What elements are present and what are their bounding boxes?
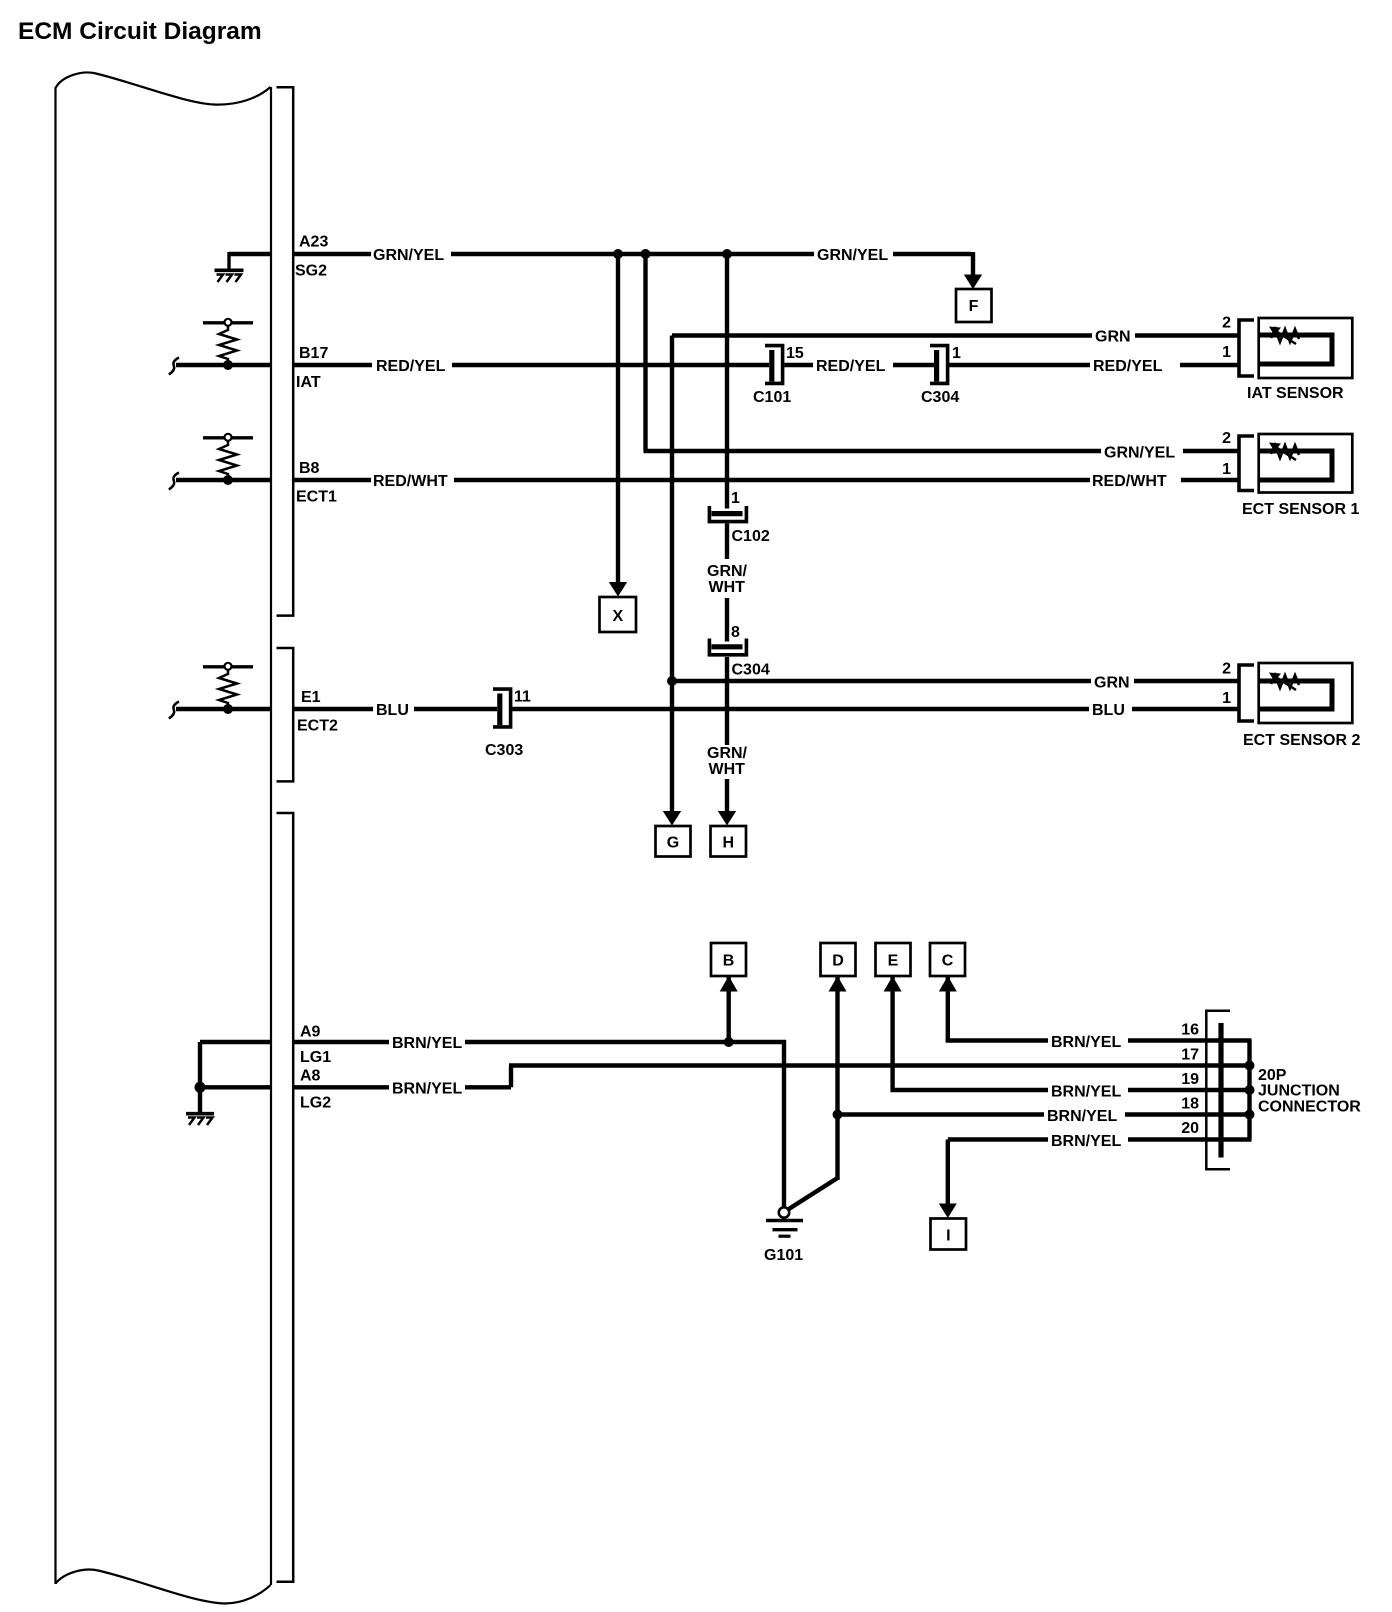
svg-text:RED/WHT: RED/WHT xyxy=(1092,473,1167,490)
wire B17 internal lead hook xyxy=(169,358,179,375)
connector C304 male bracket (H line) xyxy=(709,639,746,655)
svg-text:GRN: GRN xyxy=(1094,675,1130,692)
svg-text:C304: C304 xyxy=(921,389,959,406)
wire E1 to C303 xyxy=(414,707,497,711)
wire BLU main run xyxy=(511,707,1090,711)
svg-text:LG2: LG2 xyxy=(300,1095,331,1112)
svg-text:GRN: GRN xyxy=(1095,329,1131,346)
svg-text:B8: B8 xyxy=(299,460,320,477)
IAT sensor element loop xyxy=(1259,335,1332,364)
svg-text:20PJUNCTIONCONNECTOR: 20PJUNCTIONCONNECTOR xyxy=(1258,1067,1361,1116)
ground LG hatch strokes xyxy=(188,1118,213,1126)
svg-text:17: 17 xyxy=(1181,1047,1199,1064)
svg-text:RED/WHT: RED/WHT xyxy=(373,473,448,490)
svg-text:18: 18 xyxy=(1181,1096,1199,1113)
connector box X xyxy=(600,597,637,632)
wire connector stub 20 xyxy=(1224,1137,1252,1141)
ECM body left edge xyxy=(54,87,56,1584)
connector C303 female bar xyxy=(497,694,502,726)
node junction A23/X xyxy=(613,249,623,259)
wire H branch between C102 and label xyxy=(725,524,729,560)
svg-text:BRN/YEL: BRN/YEL xyxy=(1051,1133,1121,1150)
wire ECT1 GRN/YEL sensor stub xyxy=(1183,449,1238,453)
arrowhead into G xyxy=(663,811,681,826)
wire C branch vertical xyxy=(946,977,950,1043)
connector C101 male bracket xyxy=(765,346,783,384)
connector box I xyxy=(931,1219,967,1250)
node junction A9/B xyxy=(724,1037,734,1047)
svg-text:2: 2 xyxy=(1222,661,1231,678)
wire G branch lower xyxy=(670,681,674,811)
svg-text:GRN/WHT: GRN/WHT xyxy=(707,563,748,596)
svg-text:A23: A23 xyxy=(299,234,328,251)
wire A9 internal lead xyxy=(200,1040,271,1044)
svg-text:C102: C102 xyxy=(732,528,770,545)
wire connector stub 19 xyxy=(1224,1088,1252,1092)
ground G101 bar 1 xyxy=(766,1219,803,1223)
svg-text:GRN/WHT: GRN/WHT xyxy=(707,745,748,778)
svg-text:D: D xyxy=(832,953,844,970)
wire row 18 xyxy=(838,1112,1045,1116)
wire I branch vertical xyxy=(946,1140,950,1204)
wire B8 internal lead xyxy=(176,478,271,482)
wire RED/YEL between C101 and label xyxy=(785,363,814,367)
arrowhead into I xyxy=(939,1204,957,1219)
node junction A23/ECT1 branch xyxy=(641,249,651,259)
ECM body right edge xyxy=(270,87,272,1585)
wire E branch vertical xyxy=(890,977,894,1093)
wire D diagonal to G101 xyxy=(788,1178,838,1210)
svg-text:RED/YEL: RED/YEL xyxy=(1093,358,1163,375)
ground SG2 bar xyxy=(215,268,244,272)
svg-text:16: 16 xyxy=(1181,1022,1199,1039)
wire A23 pin stub xyxy=(293,252,371,256)
node junction A23/H branch xyxy=(722,249,732,259)
svg-text:X: X xyxy=(612,608,623,625)
thermistor symbol IAT xyxy=(1269,327,1299,345)
thermistor symbol ECT1 xyxy=(1269,443,1299,461)
resistor R-ECT1 zigzag xyxy=(219,440,237,480)
wire A23 GRN/YEL main run xyxy=(451,252,814,256)
svg-text:IAT SENSOR: IAT SENSOR xyxy=(1247,385,1344,402)
wire SG2 internal ground lead xyxy=(229,252,271,256)
svg-text:C303: C303 xyxy=(485,742,523,759)
svg-text:RED/YEL: RED/YEL xyxy=(376,358,446,375)
svg-text:BRN/YEL: BRN/YEL xyxy=(1051,1034,1121,1051)
resistor R-ECT1 top bar xyxy=(203,436,253,439)
wire RED/YEL to IAT sensor xyxy=(948,363,1091,367)
wire connector stub 17 xyxy=(1224,1063,1252,1067)
wire B8 internal lead hook xyxy=(169,473,179,490)
connector box E xyxy=(876,943,911,976)
connector box F xyxy=(956,289,992,322)
wire SG2 ground drop xyxy=(227,252,230,269)
svg-text:1: 1 xyxy=(1222,344,1231,361)
svg-text:1: 1 xyxy=(952,345,961,362)
connector bracket ECT sensor 1 xyxy=(1239,436,1254,491)
svg-text:IAT: IAT xyxy=(296,374,321,391)
wire A9 BRN/YEL run xyxy=(465,1040,786,1044)
svg-text:ECM Circuit Diagram: ECM Circuit Diagram xyxy=(18,18,262,45)
ECM connector bracket segment 1 xyxy=(277,87,294,615)
node junction R-ECT1/B8 xyxy=(223,475,233,485)
connector box H xyxy=(711,826,747,857)
ground G101 bar 2 xyxy=(773,1228,798,1231)
wire B branch vertical xyxy=(727,977,731,1043)
ECM connector bracket segment 2 xyxy=(277,648,294,781)
resistor R-ECT2 terminal circle xyxy=(225,663,232,670)
svg-text:ECT2: ECT2 xyxy=(297,718,338,735)
arrowhead into D xyxy=(829,976,847,992)
wire GRN row from G corner to IAT pin 2 xyxy=(672,333,1092,337)
ECT sensor 1 element loop xyxy=(1259,451,1332,480)
svg-text:B: B xyxy=(723,953,735,970)
wire row 18 to connector xyxy=(1125,1112,1219,1116)
svg-text:1: 1 xyxy=(1222,690,1231,707)
wire H branch through ECT2 rows xyxy=(725,657,729,745)
wire connector stub 16 xyxy=(1224,1038,1252,1042)
wire BLU sensor stub xyxy=(1132,707,1238,711)
wire B17 pin stub xyxy=(293,363,372,367)
ECM connector bracket segment 3 xyxy=(277,813,294,1582)
svg-text:GRN/YEL: GRN/YEL xyxy=(817,247,888,264)
svg-text:SG2: SG2 xyxy=(295,263,327,280)
connector bracket IAT sensor xyxy=(1239,320,1254,376)
wire GRN ECT2 sensor stub xyxy=(1134,679,1238,683)
connector C101 female bar xyxy=(769,350,774,382)
svg-text:G: G xyxy=(667,835,679,852)
wire H branch vertical upper xyxy=(725,254,729,509)
wire X branch vertical xyxy=(616,254,620,582)
connector box G xyxy=(656,826,691,857)
connector box C xyxy=(930,943,965,976)
svg-text:C: C xyxy=(942,953,954,970)
svg-text:2: 2 xyxy=(1222,315,1231,332)
wire internal ground drop LG xyxy=(198,1042,202,1112)
resistor R-ECT2 zigzag xyxy=(219,669,237,709)
svg-text:C101: C101 xyxy=(753,389,791,406)
wire RED/WHT sensor stub xyxy=(1181,478,1238,482)
svg-text:19: 19 xyxy=(1181,1071,1199,1088)
wire row 16 to connector xyxy=(1128,1038,1219,1042)
wire ECT1 GRN/YEL row xyxy=(644,449,1102,453)
wire RED/YEL to C304 xyxy=(893,363,934,367)
wire A8 pin stub xyxy=(293,1085,389,1089)
wire B17 internal lead xyxy=(176,363,271,367)
node junction bus/19 xyxy=(1245,1085,1255,1095)
svg-text:15: 15 xyxy=(786,345,804,362)
node junction bus/17 xyxy=(1245,1061,1255,1071)
wire connector bus xyxy=(1247,1041,1251,1140)
wire G branch vertical xyxy=(670,336,674,682)
node junction R-IAT/B17 xyxy=(223,360,233,370)
svg-text:1: 1 xyxy=(1222,461,1231,478)
connector C102 female bar xyxy=(712,511,743,516)
wire A9 pin stub xyxy=(293,1040,389,1044)
resistor R-IAT zigzag xyxy=(219,325,237,365)
ECT sensor 1 body xyxy=(1259,434,1353,493)
connector box D xyxy=(821,943,856,976)
wire H branch to arrow xyxy=(725,779,729,811)
svg-text:I: I xyxy=(946,1228,950,1245)
arrowhead into C xyxy=(939,976,957,992)
wire H branch between label and C304 xyxy=(725,598,729,642)
node junction D/row18 xyxy=(833,1110,843,1120)
wire A23 to F corner xyxy=(893,252,973,275)
connector C102 male bracket xyxy=(709,506,746,522)
arrowhead into B xyxy=(720,976,738,992)
ground G101 terminal circle xyxy=(779,1207,789,1217)
IAT sensor body xyxy=(1259,318,1353,378)
wire B17 RED/YEL run to C101 xyxy=(452,363,769,367)
connector C304 female bar (IAT line) xyxy=(934,350,939,382)
svg-text:GRN/YEL: GRN/YEL xyxy=(1104,445,1175,462)
node junction bus/18 xyxy=(1245,1110,1255,1120)
svg-text:A8: A8 xyxy=(300,1068,321,1085)
wire GRN sensor stub xyxy=(1135,333,1238,337)
ECM body top wavy edge xyxy=(56,73,271,105)
svg-text:RED/YEL: RED/YEL xyxy=(816,358,886,375)
svg-text:BRN/YEL: BRN/YEL xyxy=(392,1035,462,1052)
wire B8 pin stub xyxy=(293,478,371,482)
svg-text:BRN/YEL: BRN/YEL xyxy=(392,1081,462,1098)
connector C304 female bar (H line) xyxy=(712,644,743,649)
20P junction connector body bar xyxy=(1218,1023,1223,1158)
wire A8 BRN/YEL step xyxy=(465,1066,511,1088)
wire GRN row ECT2 xyxy=(672,679,1091,683)
arrowhead into X xyxy=(609,582,627,597)
connector C304 male bracket (IAT line) xyxy=(930,346,948,384)
wire row 16 xyxy=(946,1038,1048,1042)
ECM body bottom wavy edge xyxy=(56,1570,271,1604)
svg-text:E1: E1 xyxy=(301,689,321,706)
node junction R-ECT2/E1 xyxy=(223,704,233,714)
wire D branch vertical xyxy=(835,977,839,1181)
wire connector stub 18 xyxy=(1224,1112,1252,1116)
wire row 19 to connector xyxy=(1128,1088,1219,1092)
svg-text:GRN/YEL: GRN/YEL xyxy=(373,247,444,264)
wire E1 internal lead hook xyxy=(169,702,179,719)
wire A8 internal lead xyxy=(200,1085,271,1089)
resistor R-ECT1 terminal circle xyxy=(225,434,232,441)
wire row 20 xyxy=(948,1137,1048,1141)
wire RED/YEL sensor stub xyxy=(1180,363,1238,367)
node junction G/ECT2 xyxy=(667,676,677,686)
wire row 17 long run xyxy=(509,1063,1219,1067)
ground SG2 hatch strokes xyxy=(217,275,242,283)
wire row 19 xyxy=(891,1088,1048,1092)
svg-text:B17: B17 xyxy=(299,345,328,362)
wire row 20 to connector xyxy=(1128,1137,1219,1141)
ECT sensor 2 element loop xyxy=(1259,681,1332,709)
svg-text:ECT SENSOR 2: ECT SENSOR 2 xyxy=(1243,732,1360,749)
svg-text:BLU: BLU xyxy=(1092,702,1125,719)
svg-text:F: F xyxy=(969,298,979,315)
connector C303 male bracket xyxy=(493,689,511,727)
ground G101 bar 3 xyxy=(779,1235,791,1238)
svg-text:LG1: LG1 xyxy=(300,1049,331,1066)
svg-text:8: 8 xyxy=(731,624,740,641)
svg-text:BRN/YEL: BRN/YEL xyxy=(1051,1084,1121,1101)
svg-text:2: 2 xyxy=(1222,430,1231,447)
svg-text:ECT1: ECT1 xyxy=(296,489,337,506)
wire E1 pin stub xyxy=(293,707,373,711)
svg-text:C304: C304 xyxy=(732,662,770,679)
svg-text:A9: A9 xyxy=(300,1024,321,1041)
thermistor symbol ECT2 xyxy=(1269,673,1299,691)
arrowhead into H xyxy=(718,811,736,826)
svg-text:BRN/YEL: BRN/YEL xyxy=(1047,1108,1117,1125)
ground LG bar xyxy=(186,1112,214,1116)
arrowhead into E xyxy=(884,976,902,992)
ECT sensor 2 body xyxy=(1259,663,1353,723)
wire A9 drop to G101 xyxy=(782,1040,786,1208)
svg-text:G101: G101 xyxy=(764,1247,803,1264)
svg-text:E: E xyxy=(888,953,899,970)
svg-text:ECT SENSOR 1: ECT SENSOR 1 xyxy=(1242,501,1359,518)
resistor R-ECT2 top bar xyxy=(203,665,253,668)
svg-text:1: 1 xyxy=(731,490,740,507)
svg-text:11: 11 xyxy=(514,689,531,706)
connector bracket ECT sensor 2 xyxy=(1239,665,1254,721)
wire ECT1 branch vertical xyxy=(643,254,647,451)
node junction A8/ground xyxy=(195,1082,206,1093)
connector box B xyxy=(711,943,746,976)
svg-text:BLU: BLU xyxy=(376,702,409,719)
resistor R-IAT top bar xyxy=(203,321,253,324)
svg-text:H: H xyxy=(723,835,735,852)
wire E1 internal lead xyxy=(176,707,271,711)
resistor R-IAT terminal circle xyxy=(225,319,232,326)
svg-text:20: 20 xyxy=(1181,1120,1199,1137)
wire B8 RED/WHT main run xyxy=(454,478,1090,482)
arrowhead into F xyxy=(964,275,982,290)
20P junction connector bracket xyxy=(1206,1011,1230,1169)
